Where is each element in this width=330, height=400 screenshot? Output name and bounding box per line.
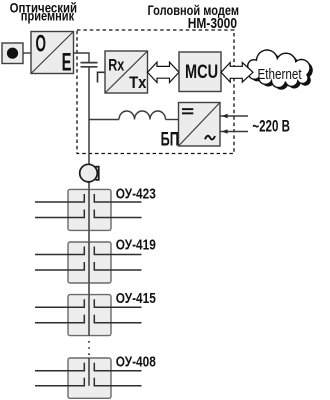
PSU (BP) box xyxy=(179,103,221,147)
svg-text:Ethernet: Ethernet xyxy=(258,66,302,83)
connector circle on trunk xyxy=(80,164,98,182)
svg-text:E: E xyxy=(62,50,72,77)
dashed enclosure of head-end modem xyxy=(77,30,234,154)
tap unit OU-423 xyxy=(35,189,142,230)
trunk dotted continuation xyxy=(88,341,90,356)
svg-text:ОУ-419: ОУ-419 xyxy=(116,236,156,253)
svg-text:O: O xyxy=(36,31,46,58)
wire inductor to PSU xyxy=(166,119,179,121)
svg-text:приемник: приемник xyxy=(21,8,75,23)
RF tap stub into Rx/Tx xyxy=(98,72,106,82)
AC input line 1 with arrow xyxy=(221,114,249,119)
AC input line 2 with arrow xyxy=(221,129,249,134)
bidirectional bus arrow Rx/Tx to MCU xyxy=(148,62,180,82)
wire trunk to PSU inductor xyxy=(89,119,119,121)
svg-text:~220 В: ~220 В xyxy=(252,117,290,136)
photodiode module xyxy=(2,43,23,64)
wire photodiode to O/E xyxy=(23,52,31,54)
svg-text:ОУ-415: ОУ-415 xyxy=(116,290,156,307)
svg-text:Rx: Rx xyxy=(108,57,125,75)
svg-text:НМ-3000: НМ-3000 xyxy=(188,15,237,31)
optical receiver caption xyxy=(10,1,77,24)
svg-text:БП: БП xyxy=(161,129,179,150)
bidirectional arrow MCU to Ethernet xyxy=(221,63,253,83)
head-end modem caption HM-3000 xyxy=(147,3,239,32)
tap unit OU-415 xyxy=(35,295,142,336)
Rx/Tx transceiver xyxy=(105,51,148,93)
inductor L1 xyxy=(119,111,166,120)
trunk wire into last tap xyxy=(88,358,90,386)
capacitor C1 (DC block) xyxy=(81,63,98,67)
Ethernet cloud xyxy=(248,50,313,90)
svg-text:ОУ-423: ОУ-423 xyxy=(116,185,156,202)
connector circle shadow bracket xyxy=(95,167,98,180)
tap unit OU-419 xyxy=(35,242,142,283)
main trunk wire (vertical) xyxy=(88,67,90,336)
tap unit OU-408 xyxy=(35,358,142,398)
svg-text:Tx: Tx xyxy=(129,74,146,92)
MCU xyxy=(179,52,221,92)
wire O/E output to coupling capacitor xyxy=(74,53,90,62)
O/E converter xyxy=(31,31,74,77)
svg-text:MCU: MCU xyxy=(185,60,218,83)
svg-text:ОУ-408: ОУ-408 xyxy=(116,353,156,370)
